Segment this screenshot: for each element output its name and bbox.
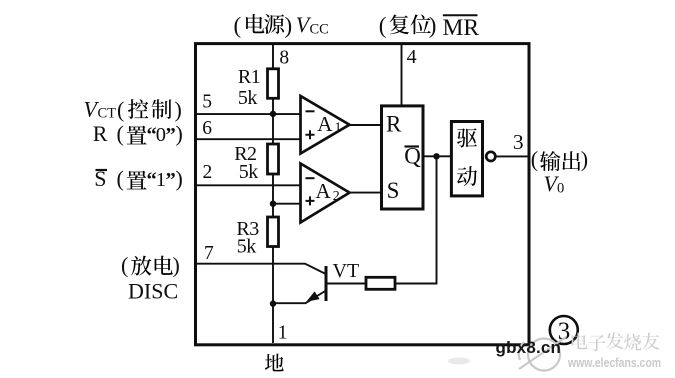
svg-text:R1: R1	[238, 66, 260, 88]
svg-text:2: 2	[333, 189, 340, 204]
A2 designator	[316, 179, 340, 204]
svg-text:gbx8.cn: gbx8.cn	[496, 338, 562, 357]
op-amp comparator A2 triangle	[301, 164, 350, 223]
svg-text:(: (	[117, 97, 124, 122]
A1 designator	[317, 112, 341, 136]
wire: pin 5 control input line to A1 inverting input	[197, 113, 300, 115]
svg-text:“0”: “0”	[147, 124, 176, 146]
svg-text:3: 3	[513, 130, 524, 154]
ground label di	[265, 354, 284, 372]
wire: Qbar node down to base resistor	[395, 156, 437, 283]
label S bar (set 1)	[94, 166, 183, 191]
label (power) Vcc	[234, 12, 329, 38]
label (discharge) DISC	[121, 253, 180, 304]
label Vo	[544, 171, 565, 197]
op-amp comparator A1 triangle	[301, 96, 350, 154]
label (output)	[531, 147, 588, 172]
svg-text:(: (	[531, 147, 538, 172]
svg-text:CC: CC	[310, 22, 329, 38]
A1 inverting mark	[306, 110, 315, 112]
figure number circled 3	[550, 316, 578, 345]
wire: pin 7 discharge line to VT collector	[197, 264, 326, 274]
svg-text:S: S	[387, 178, 400, 203]
wire: pin 4 reset lead into flip-flop	[401, 45, 403, 106]
svg-text:5: 5	[202, 91, 212, 112]
svg-text:(: (	[379, 13, 387, 38]
svg-text:6: 6	[202, 118, 212, 139]
node: pin5 / R1-R2 junction	[270, 111, 276, 117]
label (reset) MR bar	[379, 13, 480, 41]
wire: A1 output to R input	[350, 124, 382, 126]
RS flip-flop box U1	[382, 106, 424, 209]
svg-text:): )	[285, 13, 293, 38]
svg-text:1: 1	[335, 120, 342, 135]
wire: Qbar output to driver	[423, 155, 451, 157]
wire: divider chain R2-R3 segment	[272, 174, 274, 217]
wire: driver bubble to output pin 3	[496, 155, 528, 157]
svg-text:MR: MR	[443, 15, 480, 41]
A2 non-inverting mark	[306, 196, 315, 205]
svg-text:5k: 5k	[238, 87, 258, 109]
node: R2-R3 junction	[270, 201, 276, 207]
watermark elecfans brand glyphs	[572, 332, 660, 351]
svg-text:(: (	[234, 13, 242, 38]
svg-text:“1”: “1”	[147, 169, 176, 191]
svg-text:): )	[176, 166, 183, 191]
wire: pin 6 threshold input line to A1 non-inverting input	[197, 138, 300, 140]
watermark gbx8 logo circle	[519, 337, 566, 371]
label R (set 0)	[93, 121, 183, 146]
svg-text:CT: CT	[98, 106, 117, 122]
svg-text:): )	[173, 253, 180, 278]
resistor VT base resistor body	[366, 277, 395, 289]
svg-text:5k: 5k	[239, 161, 258, 183]
IC package boundary box	[196, 44, 530, 345]
node: Qbar branch junction	[433, 153, 439, 159]
svg-text:5k: 5k	[237, 235, 256, 257]
label Vct (control)	[84, 96, 182, 122]
svg-text:7: 7	[204, 243, 214, 264]
A2 inverting mark	[306, 177, 315, 179]
svg-text:A: A	[317, 112, 333, 136]
svg-text:R: R	[386, 112, 402, 137]
wire: pin 2 trigger input line to A2 inverting input	[197, 184, 300, 186]
wire: A2 output to S input	[350, 192, 382, 194]
svg-text:DISC: DISC	[128, 278, 178, 303]
svg-text:): )	[581, 147, 588, 172]
wire: divider chain R1-R2 segment	[272, 98, 274, 144]
svg-text:1: 1	[278, 322, 288, 343]
svg-text:): )	[176, 121, 183, 146]
wire: VT emitter to ground node	[274, 291, 327, 304]
watermark faint smudge	[448, 358, 470, 365]
driver block text dong	[457, 166, 477, 186]
wire: divider chain R3 to emitter node	[272, 247, 274, 304]
wire: R2-R3 node to A2 non-inverting input	[273, 203, 300, 205]
wire: emitter node to ground pin 1	[272, 304, 274, 344]
svg-text:A: A	[316, 179, 332, 203]
svg-text:R: R	[93, 121, 108, 146]
output bubble terminal	[486, 152, 495, 161]
driver block text qu	[457, 128, 477, 147]
resistor R1 body	[268, 69, 279, 99]
svg-text:VT: VT	[333, 260, 360, 282]
svg-text:0: 0	[557, 181, 564, 197]
wire: base resistor to VT base	[328, 283, 367, 285]
driver block box	[451, 122, 482, 196]
transistor Q VT base bar	[325, 266, 328, 301]
svg-text:4: 4	[407, 46, 417, 68]
svg-text:): )	[175, 97, 182, 122]
svg-text:(: (	[117, 121, 124, 146]
svg-text:www.elecfans.com: www.elecfans.com	[567, 356, 661, 370]
wire: pin 8 Vcc lead into R1	[272, 45, 274, 69]
svg-text:8: 8	[279, 47, 289, 68]
svg-text:(: (	[117, 166, 124, 191]
node: emitter / ground junction	[270, 300, 276, 306]
FF Qbar output label	[404, 143, 421, 168]
A1 non-inverting mark	[306, 130, 315, 139]
resistor R2 body	[268, 144, 279, 174]
transistor VT emitter arrowhead	[306, 291, 319, 301]
svg-text:(: (	[121, 253, 128, 278]
svg-text:2: 2	[203, 162, 213, 183]
resistor R3 body	[268, 217, 279, 247]
svg-text:): )	[429, 13, 437, 38]
